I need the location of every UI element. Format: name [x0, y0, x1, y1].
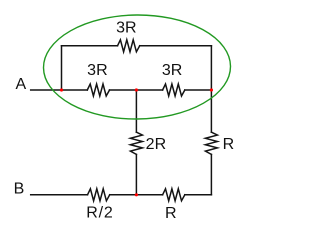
wire row2 middle segment	[110, 89, 163, 91]
node dot bottom junction	[135, 193, 138, 196]
svg-text:3R: 3R	[87, 62, 107, 79]
svg-text:R/2: R/2	[86, 205, 113, 222]
node dot middle junction	[135, 88, 138, 91]
svg-text:A: A	[15, 76, 26, 93]
wire bottom right segment	[185, 194, 212, 196]
svg-text:3R: 3R	[116, 20, 136, 37]
svg-text:R: R	[165, 205, 177, 222]
wire node B lead	[31, 194, 88, 196]
node dot right junction	[210, 88, 213, 91]
resistor R vertical right	[205, 132, 217, 154]
resistor 3R row2 left	[87, 84, 109, 96]
wire middle vertical lower	[135, 154, 137, 194]
svg-text:2R: 2R	[146, 136, 166, 153]
wire node A lead	[31, 89, 88, 91]
resistor R bottom right	[163, 189, 185, 201]
resistor 3R top	[118, 40, 140, 52]
wire middle vertical upper	[135, 90, 137, 132]
wire top loop left vertical	[61, 46, 63, 90]
wire bottom middle segment	[110, 194, 163, 196]
resistor 2R vertical middle	[130, 132, 142, 154]
node dot left junction	[60, 88, 63, 91]
wire right vertical upper	[210, 46, 212, 132]
wire top right horizontal	[140, 45, 212, 47]
wire right vertical lower	[210, 154, 212, 194]
wire row2 right segment	[185, 89, 212, 91]
resistor R/2 bottom left	[88, 189, 110, 201]
green highlight ellipse	[43, 14, 231, 120]
svg-text:R: R	[223, 136, 235, 153]
svg-text:B: B	[14, 181, 25, 198]
wire top left horizontal	[62, 45, 118, 47]
resistor 3R row2 right	[163, 84, 185, 96]
svg-text:3R: 3R	[162, 62, 182, 79]
